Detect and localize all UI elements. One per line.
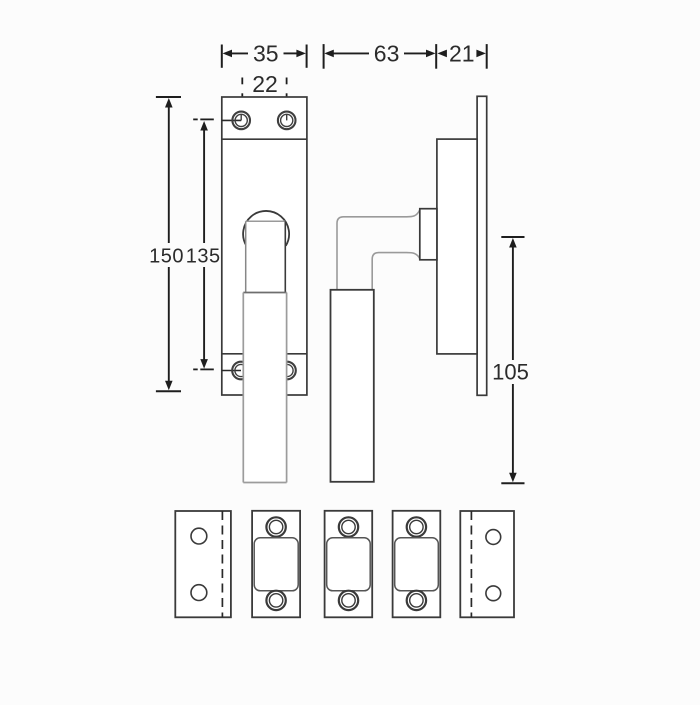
dimension 150 line and arrows — [165, 98, 173, 390]
dimension 35 ticks — [222, 45, 307, 68]
handle grip front — [243, 293, 286, 483]
svg-text:22: 22 — [252, 71, 278, 97]
dimension 105 line and arrows — [509, 238, 517, 482]
screw top-right — [278, 112, 296, 130]
keeper 5 fold dashed line — [470, 511, 472, 617]
svg-text:63: 63 — [374, 41, 400, 67]
front plate upper section line — [222, 138, 307, 140]
dimension 150 end bars — [156, 97, 181, 391]
keeper 4 plate — [393, 511, 441, 618]
keeper 5 plate — [460, 511, 514, 617]
keeper 3 guide block — [327, 538, 371, 591]
dimension 63 ticks — [324, 44, 437, 69]
hole center extension bottom — [222, 370, 241, 372]
keeper 1 hole top — [191, 528, 207, 544]
side view gear case — [437, 139, 477, 354]
dimension 105 end bars — [501, 237, 524, 483]
keeper 2 screw bottom — [266, 591, 285, 610]
side neck outer profile — [337, 210, 420, 290]
svg-text:35: 35 — [253, 41, 279, 67]
side spindle boss — [420, 209, 437, 260]
keeper 2 plate — [252, 511, 300, 618]
side handle grip — [331, 290, 374, 482]
keeper 3 screw top — [339, 517, 358, 536]
keeper 2 screw top — [266, 517, 285, 536]
dimension 21 arrows — [437, 50, 486, 58]
hole center extension top — [222, 119, 241, 121]
screw top-left — [232, 112, 250, 130]
keeper 1 plate — [175, 511, 231, 617]
screw bottom-right — [278, 362, 296, 380]
dimension 35 line and arrows — [223, 50, 306, 58]
handle neck front — [246, 221, 286, 292]
screw bottom-left — [232, 362, 250, 380]
keeper 1 hole bottom — [191, 585, 207, 601]
keeper 3 screw bottom — [339, 591, 358, 610]
keeper 5 hole top — [486, 530, 501, 545]
svg-text:21: 21 — [449, 41, 475, 67]
svg-text:150: 150 — [149, 245, 184, 267]
keeper 4 screw bottom — [407, 591, 426, 610]
svg-text:135: 135 — [186, 245, 221, 267]
keeper 4 screw top — [407, 517, 426, 536]
front view backplate — [222, 97, 307, 395]
front plate lower section line — [222, 353, 307, 355]
keeper 1 fold dashed line — [221, 511, 223, 617]
handle pivot circle front — [243, 211, 289, 246]
dimension 21 tick — [486, 44, 488, 69]
svg-text:105: 105 — [492, 360, 529, 385]
side view face plate (edge) — [477, 96, 487, 395]
dimension 135 line and arrows — [200, 121, 208, 369]
dimension 135 extension lines bottom — [193, 368, 214, 370]
keeper 4 guide block — [395, 538, 439, 591]
keeper 5 hole bottom — [486, 586, 501, 601]
dimension 22 extension dashes — [242, 78, 286, 105]
keeper 3 plate — [325, 511, 373, 618]
side neck inner profile — [372, 253, 420, 290]
keeper 2 guide block — [254, 538, 298, 591]
dimension 63 line and arrows — [324, 50, 435, 58]
dimension 135 extension lines top — [193, 118, 214, 120]
